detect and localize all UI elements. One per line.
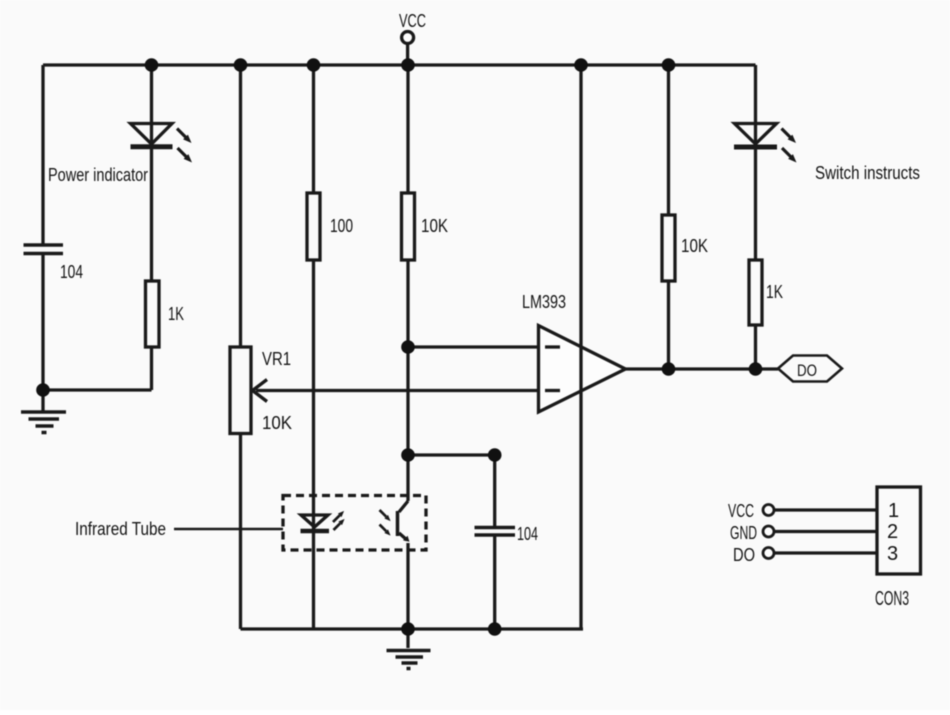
svg-text:10K: 10K xyxy=(681,236,708,256)
svg-text:Infrared Tube: Infrared Tube xyxy=(75,519,166,539)
svg-text:GND: GND xyxy=(730,523,757,543)
svg-text:LM393: LM393 xyxy=(522,292,566,312)
svg-text:2: 2 xyxy=(887,521,898,543)
svg-text:VCC: VCC xyxy=(399,11,426,31)
svg-text:CON3: CON3 xyxy=(875,588,909,610)
svg-text:104: 104 xyxy=(517,524,538,544)
svg-text:104: 104 xyxy=(60,262,83,282)
svg-text:10K: 10K xyxy=(262,413,292,433)
svg-text:Switch instructs: Switch instructs xyxy=(815,163,920,183)
svg-text:Power indicator: Power indicator xyxy=(48,165,148,185)
svg-text:VCC: VCC xyxy=(728,501,754,521)
svg-text:1K: 1K xyxy=(168,304,184,324)
svg-text:10K: 10K xyxy=(421,216,448,236)
svg-text:100: 100 xyxy=(330,216,353,236)
svg-text:DO: DO xyxy=(797,361,817,380)
svg-text:DO: DO xyxy=(733,545,755,565)
svg-text:1K: 1K xyxy=(766,282,783,302)
svg-text:3: 3 xyxy=(887,543,898,565)
svg-text:VR1: VR1 xyxy=(262,349,291,369)
svg-text:1: 1 xyxy=(888,500,899,522)
